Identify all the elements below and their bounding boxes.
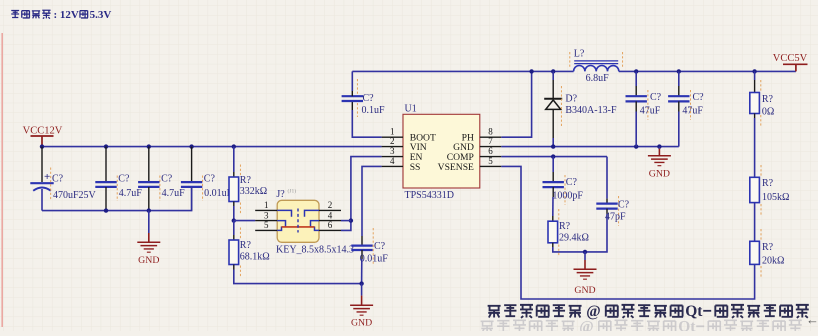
svg-text:C?: C?: [363, 93, 375, 104]
pin 4: [319, 220, 341, 222]
svg-text:4.7uF: 4.7uF: [162, 188, 186, 199]
node rail-c47b: [677, 69, 681, 73]
svg-text:470uF25V: 470uF25V: [53, 190, 97, 201]
pin 2 VIN: [382, 146, 403, 148]
power port VCC5V: [773, 53, 808, 71]
node bus-r332: [232, 144, 236, 148]
svg-text:4.7uF: 4.7uF: [119, 188, 143, 199]
gang dashed link: [297, 209, 299, 233]
wire r0 to r105k: [754, 118, 756, 177]
capacitor C? 47uF (2nd): [668, 71, 704, 146]
actuator bar: [282, 226, 315, 228]
svg-text:R?: R?: [240, 175, 252, 186]
svg-text:(J1): (J1): [288, 188, 297, 195]
svg-text:KEY_8.5x8.5x14.3: KEY_8.5x8.5x14.3: [276, 244, 354, 255]
switch contacts: [277, 210, 319, 230]
wire VSENSE feedback: [501, 166, 754, 299]
svg-text:+: +: [44, 171, 50, 183]
svg-text:@: @: [586, 303, 600, 320]
node bus-elec: [40, 144, 44, 148]
svg-text:Qt: Qt: [678, 319, 696, 331]
svg-text:47pF: 47pF: [605, 212, 626, 223]
sheet border line left: [1, 33, 3, 327]
wire left bottom bus: [42, 187, 192, 211]
capacitor C? 470uF25V electrolytic: [30, 147, 96, 211]
ground left GND: [137, 211, 160, 266]
resistor R? 0ohm: [750, 71, 775, 126]
resistor R? 332k: [229, 147, 267, 221]
resistor R? 105k: [750, 165, 790, 216]
wire SS to soft-start cap: [362, 166, 382, 236]
ground GND (comp network): [574, 252, 597, 296]
node bus-c4: [189, 144, 193, 148]
svg-text:R?: R?: [762, 178, 774, 189]
node gnd-c47a: [634, 144, 638, 148]
wire r105k to r20k: [754, 203, 756, 242]
svg-text:6: 6: [328, 220, 333, 230]
wire VCC12V top bus: [42, 146, 382, 148]
svg-text:C?: C?: [650, 92, 662, 103]
wire 68.1k bottom to SS gnd node: [234, 270, 362, 284]
inductor L? 6.8uF: [570, 49, 623, 84]
watermark 掘金技术社区 @ 长沙红胖子Qt 长沙创微智科: [488, 303, 809, 320]
capacitor C? 47pF: [596, 157, 629, 226]
resistor R? 29.4k: [548, 209, 589, 256]
wire comp network bottom: [553, 214, 607, 252]
svg-text:C?: C?: [161, 174, 173, 185]
svg-text:GND: GND: [351, 317, 372, 328]
svg-text:R?: R?: [762, 94, 774, 105]
svg-text:SS: SS: [410, 162, 421, 173]
svg-text:332kΩ: 332kΩ: [240, 186, 267, 197]
pin 4 SS: [382, 165, 403, 167]
svg-text:5: 5: [488, 156, 493, 166]
svg-text:R?: R?: [762, 242, 774, 253]
node rail-r0: [752, 69, 756, 73]
svg-text:R?: R?: [559, 221, 571, 232]
svg-text:3: 3: [390, 146, 395, 156]
svg-text:J?: J?: [276, 189, 285, 200]
node bus-c3: [147, 144, 151, 148]
wire en-divider to J? pin3: [234, 220, 255, 222]
capacitor C? 4.7uF (1st): [95, 147, 142, 211]
node en-key4: [349, 218, 353, 222]
pin 7 GND: [480, 146, 502, 148]
svg-text:0Ω: 0Ω: [762, 107, 774, 118]
svg-text:C?: C?: [118, 174, 130, 185]
svg-text:L?: L?: [574, 49, 585, 60]
svg-text:C?: C?: [374, 241, 386, 252]
svg-text:U1: U1: [405, 103, 417, 114]
capacitor C? 4.7uF (2nd): [138, 147, 185, 211]
svg-text:1000pF: 1000pF: [552, 191, 583, 202]
svg-text:47uF: 47uF: [640, 106, 661, 117]
wire VCC5V rail: [619, 70, 796, 72]
svg-text:6: 6: [488, 146, 493, 156]
svg-text:0.1uF: 0.1uF: [362, 105, 386, 116]
svg-text:5.3V: 5.3V: [90, 9, 112, 21]
node bottombus-c3: [147, 208, 151, 212]
power port VCC12V: [23, 126, 63, 147]
svg-text:: 12V: : 12V: [54, 9, 79, 21]
svg-text:←: ←: [806, 312, 818, 327]
capacitor C? 47uF (1st): [626, 71, 662, 146]
svg-text:0.01uF: 0.01uF: [360, 253, 389, 264]
capacitor C? 0.1uF (bootstrap): [342, 71, 385, 117]
node ph-riser: [529, 69, 533, 73]
svg-text:C?: C?: [204, 174, 216, 185]
svg-text:C?: C?: [693, 92, 705, 103]
node en-divider: [232, 218, 236, 222]
svg-text:3: 3: [264, 210, 269, 220]
node bottombus-c2: [104, 208, 108, 212]
capacitor C? 1000pF: [543, 157, 584, 216]
pin 6: [319, 229, 341, 231]
pin 5 VSENSE: [480, 165, 502, 167]
svg-text:C?: C?: [566, 177, 578, 188]
svg-text:GND: GND: [138, 255, 159, 266]
svg-text:4: 4: [390, 156, 395, 166]
pin 6 COMP: [480, 156, 502, 158]
svg-text:D?: D?: [565, 94, 577, 105]
watermark ghost: [481, 319, 802, 336]
svg-text:@: @: [579, 319, 593, 331]
svg-text:29.4kΩ: 29.4kΩ: [559, 233, 589, 244]
capacitor C? 0.01uF (input): [181, 147, 233, 211]
svg-text:4: 4: [328, 210, 333, 220]
resistor R? 20k: [750, 229, 785, 277]
svg-text:C?: C?: [618, 200, 630, 211]
pin 5: [255, 229, 277, 231]
node gnd-sym: [657, 144, 661, 148]
svg-text:68.1kΩ: 68.1kΩ: [240, 251, 270, 262]
wire PH pin riser: [501, 71, 531, 137]
wire BOOT to boot cap: [352, 110, 381, 137]
pin 1 BOOT: [382, 136, 403, 138]
svg-text:Qt: Qt: [685, 303, 703, 320]
node ss-gnd: [359, 281, 363, 285]
node comp-gnd: [583, 250, 587, 254]
svg-text:7: 7: [488, 136, 493, 146]
pin 3: [255, 220, 277, 222]
svg-text:5: 5: [264, 220, 269, 230]
wire COMP net: [501, 156, 607, 158]
svg-text:105kΩ: 105kΩ: [762, 192, 789, 203]
node rail-c47a: [634, 69, 638, 73]
capacitor C? 0.01uF (soft start): [351, 228, 388, 284]
svg-text:C?: C?: [52, 174, 64, 185]
pin 3 EN: [382, 156, 403, 158]
svg-text:47uF: 47uF: [682, 106, 703, 117]
svg-text:R?: R?: [240, 240, 252, 251]
title 电源模块: 12V转5.3V: [11, 9, 111, 21]
op-amp U1 TPS54331D body: [382, 103, 502, 201]
svg-text:VSENSE: VSENSE: [438, 162, 474, 173]
svg-text:VCC5V: VCC5V: [773, 53, 808, 64]
wire EN to key pin6: [341, 157, 382, 231]
svg-text:GND: GND: [574, 285, 595, 296]
svg-text:6.8uF: 6.8uF: [586, 73, 610, 84]
pin 2: [319, 209, 341, 211]
wire PH rail (switch node): [352, 70, 573, 72]
svg-text:VCC12V: VCC12V: [23, 126, 63, 137]
svg-text:2: 2: [390, 136, 395, 146]
svg-text:TPS54331D: TPS54331D: [405, 190, 454, 201]
pin 8 PH: [480, 136, 502, 138]
ground GND (output caps): [648, 147, 671, 180]
resistor R? 68.1k: [229, 221, 270, 277]
svg-text:20kΩ: 20kΩ: [762, 256, 784, 267]
wire GND pin to output caps: [501, 146, 679, 148]
svg-text:GND: GND: [649, 168, 670, 179]
node gnd-diode: [551, 144, 555, 148]
svg-text:1: 1: [264, 200, 269, 210]
node ph-diode: [551, 69, 555, 73]
diode D? B340A-13-F: [544, 71, 617, 146]
svg-text:B340A-13-F: B340A-13-F: [565, 105, 617, 116]
pin 1: [255, 209, 277, 211]
node bus-c2: [104, 144, 108, 148]
wire key pin4 to EN riser: [341, 220, 351, 222]
node comp-1000p: [551, 154, 555, 158]
connector J? KEY_8.5x8.5x14.3: [255, 188, 354, 256]
svg-text:2: 2: [328, 200, 333, 210]
ground GND (soft start): [350, 284, 373, 329]
